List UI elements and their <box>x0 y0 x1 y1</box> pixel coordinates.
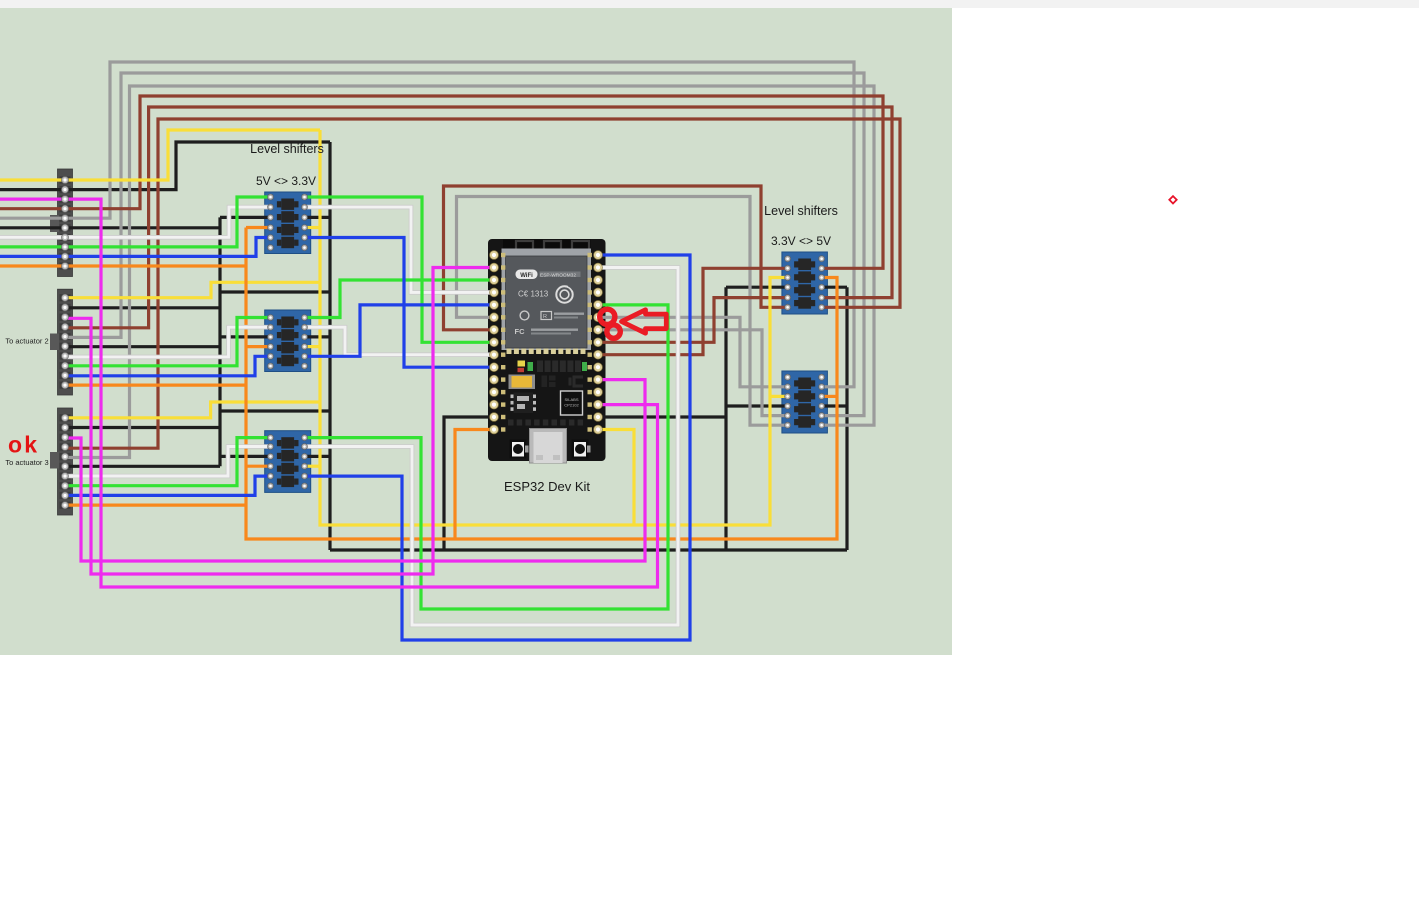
wire orange LS1 r4 left stub <box>246 226 271 229</box>
wire magenta J1 pin3 - ESP32 p13R <box>0 199 658 587</box>
svg-text:ok: ok <box>8 432 39 458</box>
svg-text:ESP-WROOM32: ESP-WROOM32 <box>540 272 576 278</box>
level shifter module LS5 (3.3V<>5V ch B) <box>782 371 828 433</box>
wire yellow LS5 r3 left stub <box>770 395 788 398</box>
wire yellow J3 pin1 <box>66 402 320 418</box>
wire yellow J2 pin1 <box>66 282 320 297</box>
wire black LS3 pin3 right <box>305 455 331 458</box>
wire black J3 pin2 <box>66 426 220 429</box>
svg-text:ESP32 Dev Kit: ESP32 Dev Kit <box>504 479 590 494</box>
connector J2 pads <box>62 294 69 388</box>
connector header J3 <box>50 408 73 515</box>
red annotation left arrow <box>622 310 667 333</box>
wire black right frame right <box>845 287 848 550</box>
wire black LS2 pin3 right <box>305 335 331 338</box>
wire green LS2 r1 right - ESP32 p3L <box>305 280 495 318</box>
wire blue J3 pin9 - LS3 r5 left <box>66 476 271 495</box>
wire black LS2 pin3 left <box>220 335 271 338</box>
wire black J3 pin6 <box>66 465 220 468</box>
svg-text:Level shifters: Level shifters <box>250 142 324 156</box>
wire brown J1 pin4 - LS4 r2 right <box>0 96 883 268</box>
wire orange ESP32 p15L <box>455 430 494 540</box>
wire yellow LS3 r4 right stub <box>305 465 321 468</box>
wire yellow J1 pin1 to top <box>0 130 320 180</box>
wire black J1 pin6 <box>0 226 220 229</box>
wire white LS2 r2 right - ESP32 p9L <box>305 327 495 355</box>
wire black right frame left <box>724 287 727 550</box>
wire white J2 pin7 - LS2 r2 left <box>66 327 271 357</box>
wire orange LS3 r4 left stub <box>246 465 271 468</box>
wire yellow vertical bus - LS4 r3 left <box>320 130 788 525</box>
wire gray ESP32 p7R - LS5 r5 left <box>598 330 788 416</box>
connector J1 pads <box>62 177 69 270</box>
connector J3 pads <box>62 414 69 508</box>
wire blue LS3 r5 right - ESP32 p1R <box>305 255 691 640</box>
wire gray ESP32 p6L - LS5 r6 left <box>457 197 788 426</box>
wire orange J3 pin10 <box>66 504 246 507</box>
wire black J2 pin2 <box>66 306 220 309</box>
wire white LS3 r2 right - ESP32 p2R <box>305 268 679 626</box>
wire green J3 pin8 - LS3 r1 left <box>66 438 271 486</box>
svg-text:To actuator 2: To actuator 2 <box>5 337 48 346</box>
wire blue LS2 r5 right - ESP32 p5L <box>305 305 495 356</box>
wire magenta J2 pin3 - ESP32 p2L <box>66 268 494 575</box>
LS4 pads <box>785 256 825 311</box>
wire green J1 pin8 - LS1 r1 left <box>0 197 271 247</box>
svg-text:3.3V <> 5V: 3.3V <> 5V <box>771 234 831 248</box>
LS1 pads <box>268 194 308 251</box>
breadboard-view green canvas <box>0 8 952 655</box>
wire black J1 pin2 to top bus <box>0 142 330 190</box>
wire blue LS1 r5 right - ESP32 p10L <box>305 238 495 368</box>
wire gray J2 pin5 - LS5 r5 right <box>66 73 864 416</box>
wire gray ESP32 p6R - LS5 r2 left <box>598 317 788 387</box>
wire gray J1 pin5 - LS5 r2 right <box>0 62 854 387</box>
wire black ESP32 GND right <box>598 415 726 418</box>
level shifter module LS1 (5V<>3.3V ch A) <box>265 192 311 254</box>
wire black LS1 pin3 left <box>220 216 271 219</box>
wire black bottom bus <box>330 548 847 551</box>
LS2 pads <box>268 315 308 370</box>
red diamond marker <box>1169 196 1176 203</box>
svg-text:FC: FC <box>515 327 526 336</box>
wire black LS5 pin4 right <box>822 404 847 407</box>
svg-text:Level shifters: Level shifters <box>764 204 838 218</box>
LS3 pads <box>268 435 308 489</box>
wire black LS5 pin4 left <box>726 404 788 407</box>
wire green LS3 r1 right - ESP32 p5R <box>305 305 669 609</box>
top light strip <box>0 0 1419 8</box>
wire blue J1 pin9 - LS1 r5 left <box>0 238 271 257</box>
svg-text:5V <> 3.3V: 5V <> 3.3V <box>256 174 316 188</box>
wire black ESP32 GND left <box>444 417 494 550</box>
wire black vertical bus B1 <box>218 217 221 466</box>
svg-text:SILABS: SILABS <box>564 397 578 402</box>
wire black LS4 pin4 right <box>822 286 847 289</box>
wire brown ESP32 p8R - LS4 r5 left <box>598 298 788 343</box>
svg-text:R: R <box>543 314 547 320</box>
wire black vertical bus B2 <box>328 142 331 550</box>
wire brown J3 pin4 - LS4 r6 right <box>66 119 900 448</box>
wire orange J1 pin10 <box>0 264 246 267</box>
wire orange J2 pin10 <box>66 384 246 387</box>
red annotation scissors (cut mark) <box>600 309 621 338</box>
wire green J2 pin8 - LS2 r1 left <box>66 318 271 366</box>
wire yellow ESP32 p15R <box>598 430 634 526</box>
wire black jog bus B1-B2 upper <box>220 290 330 293</box>
connector header J2 <box>50 289 73 395</box>
svg-text:C€ 1313: C€ 1313 <box>518 290 549 299</box>
svg-text:WiFi: WiFi <box>520 273 533 279</box>
wire green LS1 r1 right - ESP32 p8L <box>305 197 495 342</box>
level shifter module LS2 (5V<>3.3V ch B) <box>265 310 311 372</box>
wire orange vertical bus - LS4 r3 right <box>246 228 837 540</box>
ESP32 Dev Kit board U1 <box>488 239 606 463</box>
wire white J1 pin7 - LS1 r2 left <box>0 207 271 237</box>
LS5 pads <box>785 374 825 428</box>
wire blue J2 pin9 - LS2 r5 left <box>66 356 271 376</box>
wire orange LS2 r4 left stub <box>246 345 271 348</box>
wire magenta J3 pin3 - ESP32 p11R <box>66 380 645 561</box>
wire black LS3 pin3 left <box>220 455 271 458</box>
wire black LS4 pin4 left <box>726 286 788 289</box>
wire black J2 pin6 <box>66 345 220 348</box>
level shifter module LS3 (5V<>3.3V ch C) <box>265 431 311 493</box>
wire yellow LS1 r4 right stub <box>305 226 321 229</box>
wire brown J2 pin4 - LS4 r5 right <box>66 107 892 328</box>
svg-text:To actuator 3: To actuator 3 <box>5 458 48 467</box>
connector header J1 (to actuator 1) <box>50 169 73 277</box>
ESP32 pin pads <box>490 251 603 434</box>
wire brown ESP32 p7L - LS4 r6 left <box>444 186 788 330</box>
wire orange LS5 r3 right stub <box>822 395 837 398</box>
level shifter module LS4 (3.3V<>5V ch A) <box>782 252 828 314</box>
wire gray J3 pin5 - LS5 r6 right <box>66 86 874 458</box>
wire yellow LS2 r4 right stub <box>305 345 321 348</box>
wire black jog bus B1-B2 lower <box>220 409 330 412</box>
wire white LS1 r2 right - ESP32 p4L <box>305 207 495 292</box>
svg-text:CP2102: CP2102 <box>564 403 579 408</box>
wire white J3 pin7 - LS3 r2 left <box>66 447 271 477</box>
wire black LS1 pin3 right <box>305 216 331 219</box>
wire brown ESP32 p9R - LS4 r2 left <box>598 268 788 354</box>
